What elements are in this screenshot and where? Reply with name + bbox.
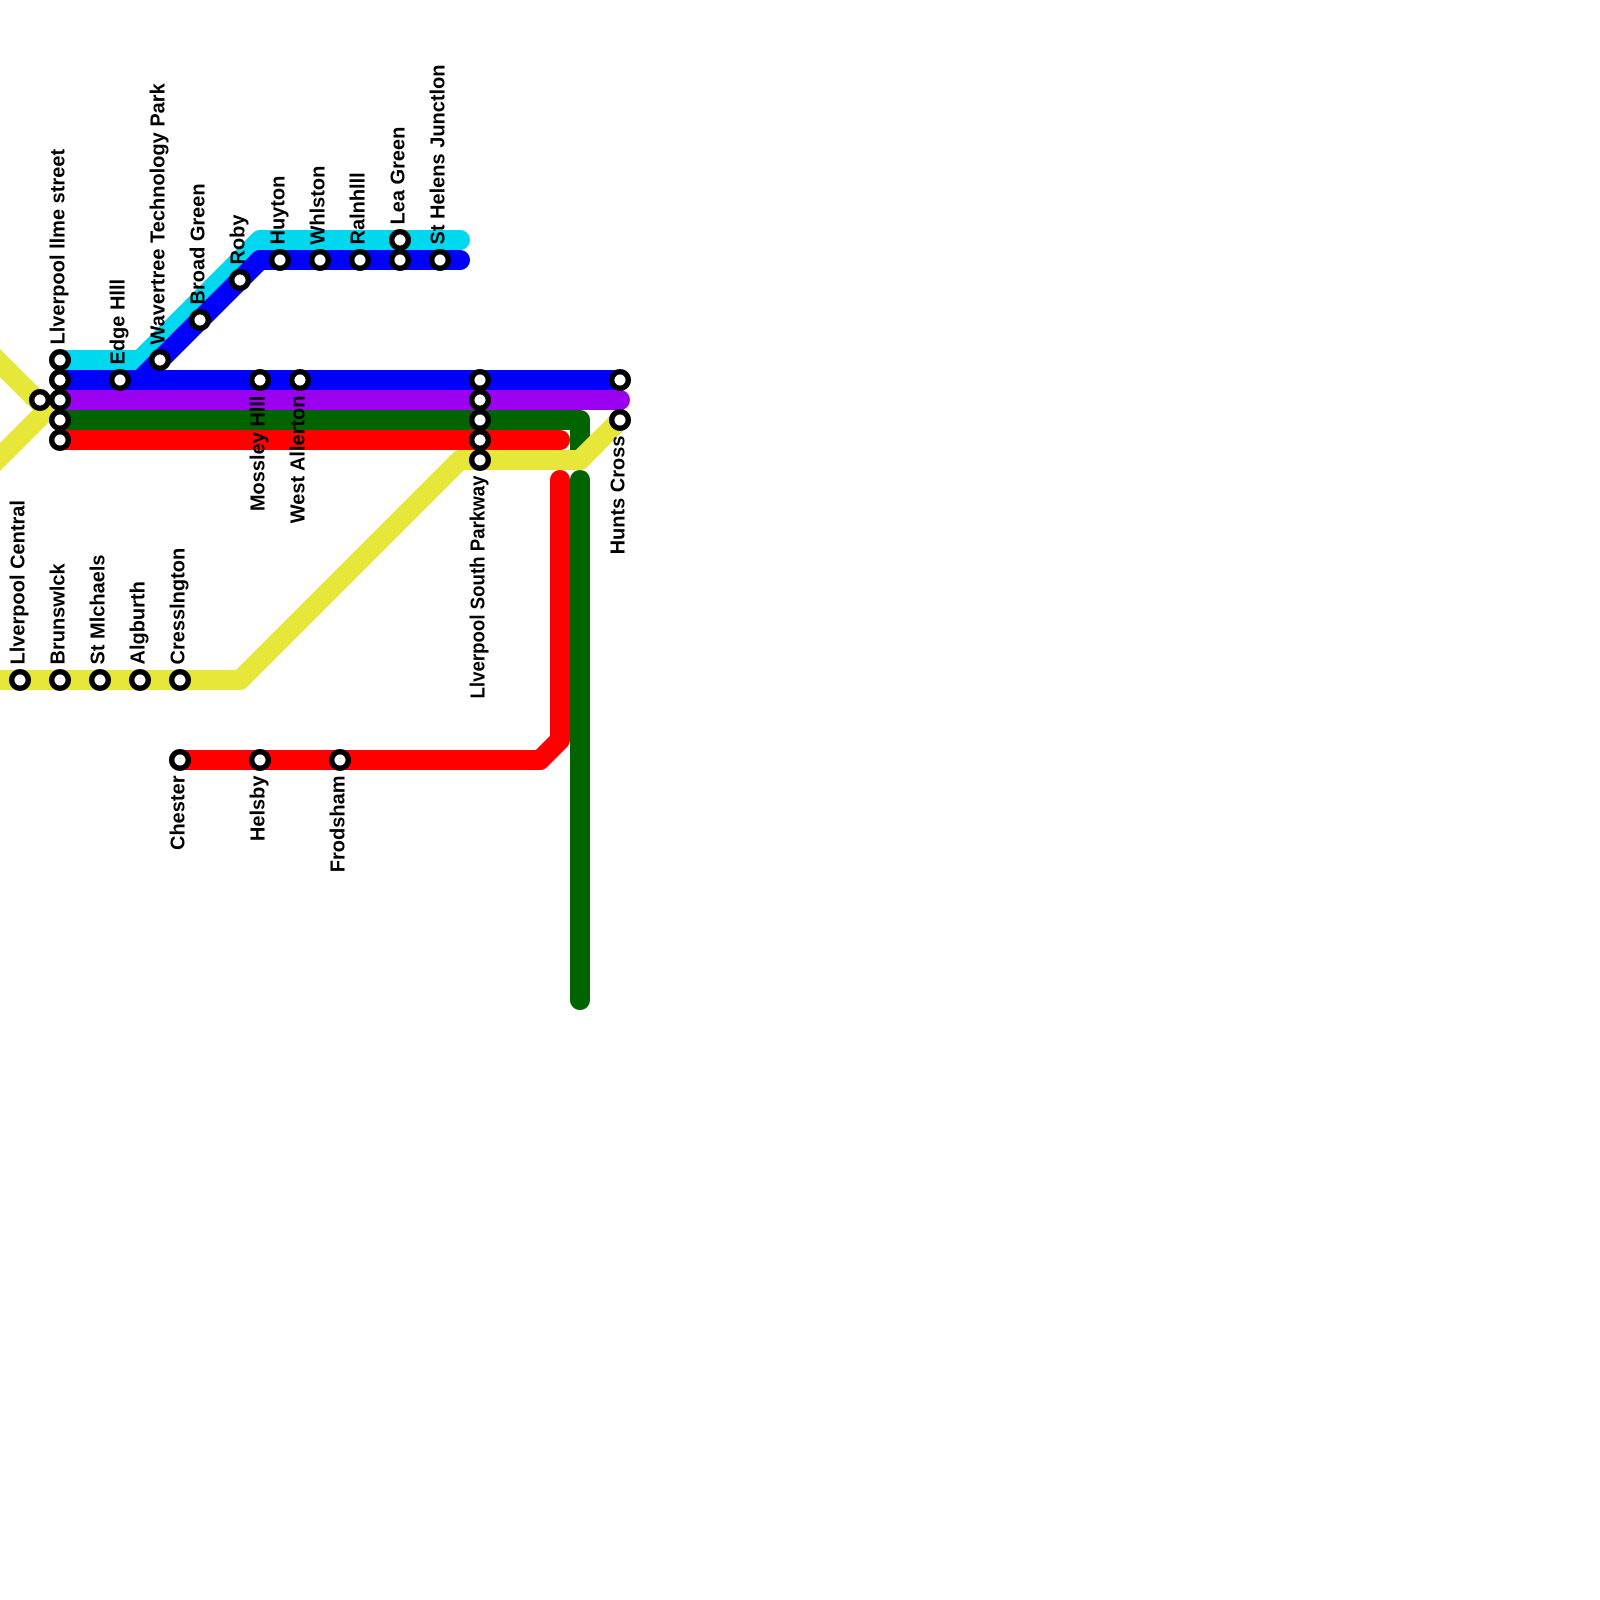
svg-text:St Mlchaels: St Mlchaels <box>88 554 110 664</box>
station Aigburth <box>132 672 149 689</box>
station Wavertree Technology Park <box>152 352 169 369</box>
station Parkway red <box>472 432 489 449</box>
station Liverpool South Parkway <box>472 452 489 469</box>
station lime street green <box>52 412 69 429</box>
station Mossley Hill <box>252 372 269 389</box>
line red: Chester branch vertical <box>180 480 560 760</box>
station lime street red <box>52 432 69 449</box>
station Whiston <box>312 252 329 269</box>
svg-text:Brunswlck: Brunswlck <box>48 562 70 664</box>
svg-text:Broad Green: Broad Green <box>188 183 210 304</box>
svg-text:Llverpool llme street: Llverpool llme street <box>48 149 70 345</box>
station Parkway purple <box>472 392 489 409</box>
station Huyton <box>272 252 289 269</box>
svg-text:Edge Hlll: Edge Hlll <box>108 279 130 365</box>
svg-text:Ralnhlll: Ralnhlll <box>348 172 370 244</box>
line yellow: main route Liverpool Central - Hunts Cross <box>0 420 620 680</box>
station Liverpool Central <box>12 672 29 689</box>
svg-text:St Helens Junctlon: St Helens Junctlon <box>428 64 450 244</box>
station Frodsham <box>332 752 349 769</box>
station Edge Hill <box>112 372 129 389</box>
station Liverpool lime street <box>52 352 69 369</box>
svg-text:Roby: Roby <box>228 214 250 265</box>
svg-text:Cresslngton: Cresslngton <box>168 548 190 665</box>
station lime street purple <box>52 392 69 409</box>
svg-text:Llverpool Central: Llverpool Central <box>8 500 30 664</box>
station lime street blue <box>52 372 69 389</box>
svg-text:West Allerton: West Allerton <box>288 396 310 524</box>
station yellow unnamed <box>32 392 49 409</box>
line red: horizontal segment <box>60 430 560 450</box>
station Cressington <box>172 672 189 689</box>
svg-text:Chester: Chester <box>168 775 190 850</box>
line darkgreen: horizontal with corner <box>60 420 580 458</box>
svg-text:Whlston: Whlston <box>308 166 330 245</box>
svg-text:Algburth: Algburth <box>128 581 150 664</box>
station Hunts Cross blue <box>612 372 629 389</box>
svg-text:Helsby: Helsby <box>248 775 270 841</box>
line purple: main horizontal <box>60 390 620 410</box>
station Parkway green <box>472 412 489 429</box>
station Lea Green cyan <box>392 232 409 249</box>
line blue: main horizontal <box>60 370 620 390</box>
station Chester <box>172 752 189 769</box>
line yellow: upper-left X <box>0 323 47 507</box>
station West Allerton <box>292 372 309 389</box>
station Parkway blue <box>472 372 489 389</box>
line darkgreen: vertical tail <box>570 480 590 1000</box>
station Hunts Cross yellow <box>612 412 629 429</box>
station Broad Green <box>192 312 209 329</box>
svg-text:Frodsham: Frodsham <box>328 776 350 873</box>
svg-text:Hunts Cross: Hunts Cross <box>608 436 630 555</box>
svg-text:Mossley Hlll: Mossley Hlll <box>248 396 270 512</box>
svg-text:Wavertree Technology Park: Wavertree Technology Park <box>148 82 170 344</box>
station Helsby <box>252 752 269 769</box>
svg-text:Huyton: Huyton <box>268 176 290 245</box>
line blue: branch to St Helens Junction <box>140 260 460 380</box>
station Brunswick <box>52 672 69 689</box>
station Rainhill <box>352 252 369 269</box>
svg-text:Lea Green: Lea Green <box>388 127 410 225</box>
line cyan: Liverpool lime street - Lea Green branch <box>60 240 460 360</box>
station St Michaels <box>92 672 109 689</box>
station St Helens Junction <box>432 252 449 269</box>
station Lea Green blue <box>392 252 409 269</box>
svg-text:Llverpool South Parkway: Llverpool South Parkway <box>468 475 490 699</box>
station Roby <box>232 272 249 289</box>
